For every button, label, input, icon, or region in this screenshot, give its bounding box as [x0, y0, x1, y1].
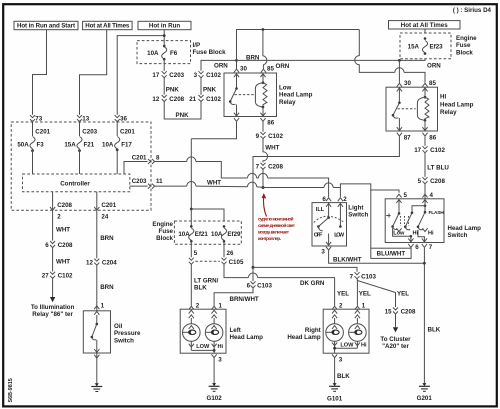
fuse F21 15A: [64, 137, 94, 153]
svg-text:C103: C103: [257, 283, 272, 290]
light switch box: [312, 203, 347, 246]
hop over WHT vertical: [258, 173, 267, 178]
wire DK GRN: Ef29 down, east with hop over DKGRN-junction vertical, down to right lamp pin 2: [224, 264, 335, 305]
svg-text:Engine: Engine: [152, 221, 173, 228]
ground G101: [329, 383, 340, 391]
svg-text:C102: C102: [58, 273, 73, 280]
svg-text:15A: 15A: [408, 44, 420, 51]
light switch pin 2: [338, 198, 343, 201]
svg-text:Relay "86" ter: Relay "86" ter: [32, 311, 73, 318]
svg-text:1: 1: [101, 302, 105, 309]
svg-text:86: 86: [429, 135, 436, 142]
svg-text:Block: Block: [456, 49, 473, 56]
svg-text:WHT: WHT: [265, 145, 279, 152]
relay K2 HI Head Lamp Relay box: [386, 87, 438, 131]
svg-text:15A: 15A: [64, 141, 76, 148]
svg-text:50A: 50A: [17, 141, 29, 148]
wire junction east to C103-7 drop: [253, 267, 357, 271]
svg-text:I/P: I/P: [193, 42, 201, 49]
connector C102 pin 17: [414, 146, 445, 154]
svg-text:C102: C102: [206, 72, 221, 79]
pin 30 arrow: [234, 69, 239, 72]
wire to ground: [96, 353, 98, 386]
HLS pin 6 below: [408, 244, 413, 247]
svg-text:C102: C102: [430, 147, 445, 154]
svg-text:17: 17: [152, 72, 159, 79]
connector C102 pin 9: [256, 132, 284, 140]
svg-text:Hot in Run: Hot in Run: [149, 23, 180, 30]
svg-text:3: 3: [339, 357, 343, 364]
wire split to Ef29: [191, 209, 224, 221]
svg-text:Switch: Switch: [348, 212, 368, 219]
svg-text:HI: HI: [440, 94, 446, 101]
connector C204 pin 12: [86, 259, 117, 267]
svg-text:Hot at All Times: Hot at All Times: [85, 23, 130, 30]
wire pin 6 to BLU/WHT box: [410, 247, 412, 249]
wire to WHT junction: [262, 170, 264, 188]
red annotation text: [258, 216, 296, 241]
relay K1 coil: [255, 73, 267, 117]
light switch pin 6: [326, 198, 331, 201]
svg-text:G102: G102: [207, 395, 223, 402]
svg-text:11: 11: [156, 178, 163, 185]
svg-text:"A20" ter: "A20" ter: [382, 343, 409, 350]
wire into Ef21: [190, 209, 192, 226]
wire to fuse F17: [116, 121, 118, 137]
node Hot in Run split: [163, 34, 166, 37]
fuse F17 10A: [102, 137, 132, 152]
svg-text:3: 3: [321, 249, 325, 256]
svg-text:Left: Left: [230, 327, 241, 334]
node engine fuse feed split: [190, 208, 193, 211]
controller bottom exit C201 pin 24: [94, 192, 117, 221]
svg-text:BRN/WHT: BRN/WHT: [230, 296, 259, 303]
svg-text:10A: 10A: [178, 231, 190, 238]
label box Hot in Run and Start: [14, 21, 78, 29]
wire 87 to horizontal 156: [253, 137, 399, 268]
svg-text:Hi: Hi: [428, 231, 434, 237]
svg-text:FLASH: FLASH: [429, 210, 445, 216]
svg-text:Hot in Run and Start: Hot in Run and Start: [17, 23, 75, 30]
svg-text:BLK/WHT: BLK/WHT: [333, 257, 362, 264]
right lamp LOW bulb: [326, 310, 344, 348]
wire down to Ef fuses with hops over controller lines: [190, 139, 192, 209]
svg-text:DK GRN: DK GRN: [300, 280, 325, 287]
wire to head lamp switch pin 4: [424, 184, 426, 199]
wire WHT east: hop, junction, hop over LS6 wire, to jog and head lamp switch 5: [155, 186, 341, 187]
wire to fuse F3: [32, 121, 34, 137]
wire branch down to BLU/WHT box: [370, 190, 372, 248]
controller outer dashed box: [11, 122, 151, 210]
svg-text:6: 6: [45, 242, 49, 249]
svg-text:2: 2: [343, 196, 347, 203]
node junction at 253/267.4: [252, 266, 255, 269]
ground G201: [419, 383, 430, 391]
svg-text:Head Lamp: Head Lamp: [287, 334, 321, 341]
node ORN top junction: [262, 28, 265, 31]
K2 pin 30 arrow: [397, 83, 402, 86]
wire ORN up to bus: [201, 60, 237, 70]
relay K1 switch: [229, 73, 239, 117]
svg-text:C208: C208: [58, 242, 73, 249]
light switch pin 3: [326, 247, 331, 250]
label box Hot at All Times: [83, 21, 133, 29]
svg-text:S6B-9815: S6B-9815: [8, 378, 14, 402]
wire C201-8 east then down to light switch pin 6, hops over verticals: [155, 162, 329, 198]
connector C201 pin 8: [132, 155, 160, 164]
ground (oil pressure switch): [91, 383, 102, 391]
left lamp pin 2: [189, 306, 194, 309]
svg-text:C201: C201: [120, 129, 135, 136]
node tee BLK: [423, 262, 426, 265]
right lamp pin 1: [355, 306, 360, 309]
svg-text:C201: C201: [35, 129, 50, 136]
left lamp bus and pin 3: [191, 350, 214, 353]
svg-text:WHT: WHT: [56, 226, 70, 233]
wire Ef29 pin 26: [223, 241, 225, 257]
left lamp pin 1: [212, 306, 217, 309]
svg-text:10A: 10A: [102, 141, 114, 148]
svg-text:Block: Block: [156, 235, 173, 242]
wire ORN to HI relay 30: [398, 60, 400, 82]
svg-text:2: 2: [196, 302, 200, 309]
svg-text:( ) : Sirius D4: ( ) : Sirius D4: [453, 7, 492, 14]
wire BLK/WHT from pin 3: [329, 251, 425, 264]
svg-text:5: 5: [418, 178, 422, 185]
head lamp switch interior: [386, 199, 427, 243]
svg-text:LOW: LOW: [340, 342, 354, 348]
relay K2 linkage: [397, 108, 415, 110]
svg-text:86: 86: [267, 120, 274, 127]
svg-text:85: 85: [267, 66, 274, 73]
wire Ef21 pin 5: [190, 241, 192, 257]
svg-text:10A: 10A: [147, 50, 159, 57]
right lamp pin 2: [332, 306, 337, 309]
HLS pin 5: [396, 194, 401, 197]
connector C208 pin 5: [418, 177, 446, 185]
svg-text:Light: Light: [348, 205, 363, 212]
wire LT GRN/BLK to left head lamp pin 2: [190, 264, 192, 305]
node Ef23 junction: [398, 59, 401, 62]
svg-text:6: 6: [415, 244, 419, 251]
connector C203 pin 13: [77, 115, 98, 135]
svg-text:15: 15: [385, 309, 392, 316]
svg-text:Low: Low: [393, 231, 405, 237]
I/P fuse block box: [137, 41, 191, 64]
svg-text:5: 5: [194, 250, 198, 257]
pin 85 arrow: [261, 69, 266, 72]
svg-text:WHT: WHT: [207, 179, 221, 186]
wire F17 to controller: [116, 149, 118, 174]
svg-text:87: 87: [404, 135, 411, 142]
svg-text:Hi: Hi: [218, 344, 224, 350]
wire Low relay output to engine fuses: [191, 122, 236, 139]
connector C208 pin 7: [256, 163, 284, 171]
svg-text:контроллер.: контроллер.: [258, 236, 281, 241]
wire PNK: [163, 78, 165, 95]
svg-text:73: 73: [35, 115, 42, 122]
svg-text:C103: C103: [361, 273, 376, 280]
node ORN split: [235, 59, 238, 62]
svg-text:85: 85: [429, 80, 436, 87]
svg-text:F21: F21: [84, 141, 95, 148]
svg-text:Ef29: Ef29: [227, 231, 241, 238]
svg-text:12: 12: [86, 259, 93, 266]
svg-text:Switch: Switch: [448, 232, 468, 239]
wire WHT down: [52, 248, 54, 272]
svg-text:24: 24: [101, 213, 108, 220]
svg-text:BRN: BRN: [100, 235, 114, 242]
svg-text:Pressure: Pressure: [114, 330, 141, 337]
wire WHT jog up and to head lamp switch pin 5: [340, 184, 399, 193]
svg-text:7: 7: [429, 244, 433, 251]
svg-text:схеме дневной свет: схеме дневной свет: [258, 222, 296, 228]
svg-text:LT GRN/: LT GRN/: [194, 277, 219, 284]
svg-text:LOW: LOW: [196, 344, 210, 350]
svg-text:Hi: Hi: [361, 342, 367, 348]
wire controller out C201 8: [124, 162, 148, 175]
svg-text:Fuse Block: Fuse Block: [193, 49, 227, 56]
svg-text:ORN: ORN: [276, 63, 290, 70]
wire BRN/WHT to left head lamp pin 1: [214, 288, 253, 306]
svg-text:C208: C208: [268, 164, 283, 171]
svg-text:Switch: Switch: [114, 337, 134, 344]
fuse Ef23: [422, 37, 427, 55]
connector C103 pin 7: [350, 272, 377, 280]
svg-text:Relay: Relay: [279, 99, 296, 106]
svg-text:3: 3: [218, 357, 222, 364]
svg-text:C203: C203: [82, 129, 97, 136]
svg-text:судя по монтажной: судя по монтажной: [258, 216, 294, 222]
svg-text:ORN: ORN: [427, 62, 441, 69]
svg-text:LOW: LOW: [334, 232, 345, 238]
svg-text:ORN: ORN: [214, 62, 228, 69]
relay K2 switch: [392, 87, 402, 131]
wire from Hot at All Times to fuse F21: [80, 30, 107, 115]
label box Hot at All Times (right): [389, 21, 461, 29]
wire Ef23 to Hot at All Times: [424, 29, 426, 33]
wire PNK up: [200, 78, 202, 95]
wire to fuse F21: [79, 121, 81, 137]
K2 pin 86: [422, 133, 427, 136]
connector C208 pin 12: [152, 95, 184, 103]
svg-text:Relay: Relay: [440, 109, 457, 116]
svg-text:30: 30: [404, 80, 411, 87]
wire F21 to controller: [79, 149, 81, 174]
svg-text:C208: C208: [430, 178, 445, 185]
pin 86 out: [260, 118, 265, 121]
svg-text:2: 2: [57, 213, 61, 220]
fuse Ef29 10A: [211, 225, 241, 243]
svg-text:Oil: Oil: [114, 323, 123, 330]
svg-text:17: 17: [414, 147, 421, 154]
connector C201 pin 36: [115, 115, 136, 135]
svg-text:10A: 10A: [211, 231, 223, 238]
right lamp HI bulb: [349, 310, 367, 348]
wire pin 7 to BLK/WHT tee: [423, 248, 425, 263]
svg-text:PNK: PNK: [166, 87, 180, 94]
svg-text:Hot at All Times: Hot at All Times: [401, 22, 449, 29]
controller inner dashed box: [23, 174, 130, 192]
svg-text:Ef21: Ef21: [195, 231, 209, 238]
connector C102 pin 27: [42, 272, 73, 280]
svg-text:Hi: Hi: [413, 231, 419, 237]
ground G102: [209, 383, 220, 391]
head lamp switch box: [385, 199, 444, 243]
hop over vertical at 253: [248, 273, 257, 278]
svg-text:C102: C102: [268, 133, 283, 140]
oil pressure switch box: [83, 311, 110, 353]
svg-text:Head Lamp: Head Lamp: [448, 225, 482, 232]
HLS pin 4: [422, 194, 427, 197]
svg-text:12: 12: [152, 96, 159, 103]
svg-text:C208: C208: [57, 202, 72, 209]
svg-text:1: 1: [362, 302, 366, 309]
svg-text:всегда включает: всегда включает: [258, 229, 290, 234]
svg-text:Right: Right: [305, 327, 321, 334]
wire to illumination relay arrow: [52, 279, 54, 298]
left lamp HI bulb: [205, 310, 223, 350]
svg-text:Head Lamp: Head Lamp: [230, 334, 264, 341]
light switch interior: [314, 203, 344, 246]
wire ORN top bus: [237, 30, 360, 61]
K2 pin 85 arrow: [422, 83, 427, 86]
wire left lamp ground: [213, 358, 215, 385]
svg-text:C102: C102: [206, 96, 221, 103]
svg-text:BLK: BLK: [337, 373, 350, 380]
svg-text:BRN: BRN: [246, 54, 260, 61]
svg-text:Ef23: Ef23: [430, 44, 444, 51]
controller bottom exit C208 pin 2: [50, 192, 73, 221]
svg-text:4: 4: [430, 192, 434, 199]
left lamp LOW bulb: [183, 310, 201, 350]
HLS pin 7 below: [422, 244, 427, 247]
relay K1 Low Head Lamp Relay box: [224, 73, 277, 117]
svg-text:Head Lamp: Head Lamp: [279, 92, 313, 99]
svg-text:Head Lamp: Head Lamp: [440, 101, 474, 108]
BLU/WHT label box: [371, 248, 411, 258]
wire to cluster arrow: [395, 314, 397, 327]
right lamp bus and pin 3: [335, 348, 358, 353]
svg-text:Fuse: Fuse: [456, 42, 471, 49]
node WHT junction: [262, 186, 265, 189]
svg-text:BLU/WHT: BLU/WHT: [377, 251, 406, 258]
svg-text:Fuse: Fuse: [159, 228, 174, 235]
relay K1 linkage: [235, 94, 254, 96]
svg-text:7: 7: [256, 164, 260, 171]
wire branch down to light switch pin 2: [339, 188, 341, 198]
svg-text:YEL: YEL: [359, 290, 371, 297]
svg-text:WHT: WHT: [56, 258, 70, 265]
svg-text:G201: G201: [417, 395, 433, 402]
wire YEL to right head lamp pin 1: [356, 279, 358, 306]
svg-text:To Illumination: To Illumination: [31, 304, 75, 311]
svg-text:2: 2: [339, 302, 343, 309]
wire ORN horizontal to Ef23: [237, 59, 426, 61]
hop over engine-fuse vertical: [187, 182, 196, 187]
connector C102 pin 3: [194, 71, 222, 79]
wire to Low relay 30: [236, 60, 238, 68]
svg-text:27: 27: [42, 273, 49, 280]
svg-text:ILL: ILL: [316, 207, 325, 213]
pin 87 out (unlabeled): [234, 118, 239, 121]
svg-text:7: 7: [350, 273, 354, 280]
svg-text:30: 30: [240, 66, 247, 73]
connector C103 pin 6: [247, 267, 273, 289]
connector C203 pin 11: [132, 178, 163, 188]
wire 86 down: [424, 137, 426, 146]
engine fuse block Ef23: [400, 33, 451, 59]
svg-text:6: 6: [322, 196, 326, 203]
svg-text:F17: F17: [121, 141, 132, 148]
svg-text:C201: C201: [132, 155, 147, 162]
wire YEL diagonal to cluster: [357, 281, 395, 308]
svg-text:26: 26: [227, 250, 234, 257]
wire F6 down: [163, 59, 165, 71]
hop over light switch 6 wire: [324, 183, 333, 188]
svg-text:Controller: Controller: [60, 181, 90, 188]
svg-text:YEL: YEL: [337, 290, 349, 297]
right head lamp box: [323, 309, 369, 353]
svg-text:BLK: BLK: [428, 327, 441, 334]
K2 pin 87: [397, 133, 402, 136]
wire PNK u-turn: [164, 102, 201, 119]
svg-text:3: 3: [194, 72, 198, 79]
wire WHT from Low 86: [262, 122, 264, 132]
connector C105 (dashed pair): [189, 258, 244, 266]
svg-text:YEL: YEL: [397, 290, 409, 297]
svg-text:36: 36: [120, 115, 127, 122]
left head lamp box: [180, 309, 226, 353]
wire BRN down: [96, 211, 98, 258]
svg-text:G101: G101: [327, 396, 343, 403]
wire BLK down to G201: [423, 263, 425, 385]
svg-text:6: 6: [247, 283, 251, 290]
svg-text:C208: C208: [401, 309, 416, 316]
connector C208 pin 6: [45, 241, 73, 249]
svg-text:Low: Low: [279, 85, 292, 92]
wire from Hot in Run and Start to fuse F3: [33, 30, 47, 115]
svg-text:C105: C105: [229, 259, 244, 266]
svg-text:C203: C203: [169, 72, 184, 79]
svg-text:8: 8: [156, 155, 160, 162]
wire ORN right bus down with hop, to HI relay 85: [355, 30, 425, 83]
connector C102 pin 21: [189, 95, 221, 103]
svg-text:PNK: PNK: [203, 87, 217, 94]
wire from Hot in Run to F6 and F17: [117, 30, 164, 115]
wire to Low relay 85 with hop over ORN bus: [263, 30, 267, 69]
svg-text:F3: F3: [37, 141, 45, 148]
connector C201 pin 73: [30, 115, 51, 135]
hop over HI 30 wire: [395, 68, 404, 73]
svg-text:BRN: BRN: [100, 284, 114, 291]
fuse F6 10A: [147, 45, 178, 61]
wire controller out C203 11: [130, 185, 148, 187]
svg-text:5: 5: [404, 192, 408, 199]
svg-text:C203: C203: [132, 178, 147, 185]
svg-text:OFF: OFF: [314, 232, 323, 238]
wire F3 to controller: [32, 149, 34, 174]
wire BRN to oil pressure switch: [96, 265, 98, 311]
svg-text:C204: C204: [102, 259, 117, 266]
svg-text:13: 13: [82, 115, 89, 122]
wire LT BLU: [424, 153, 426, 177]
connector C208 pin 15: [385, 307, 416, 315]
wire WHT down: [52, 211, 54, 241]
label box Hot in Run: [138, 21, 191, 29]
hop over DKGRN vertical: [248, 173, 257, 178]
fuse F3 50A: [17, 137, 44, 153]
